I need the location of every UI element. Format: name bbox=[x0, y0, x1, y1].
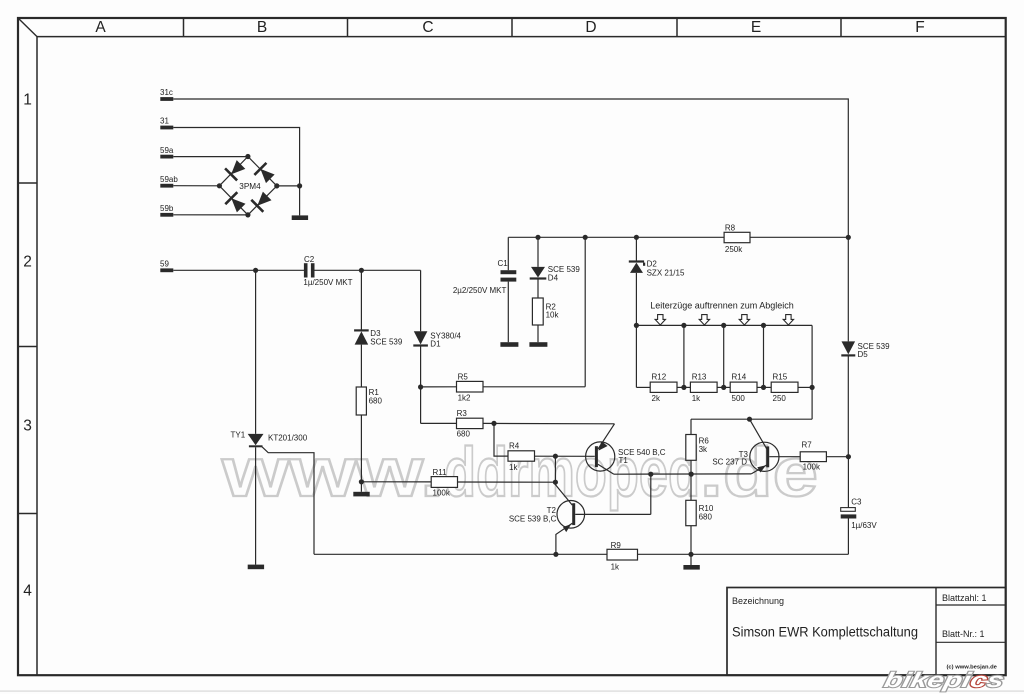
svg-text:E: E bbox=[751, 19, 761, 36]
svg-text:R5: R5 bbox=[458, 373, 469, 382]
svg-text:3PM4: 3PM4 bbox=[239, 182, 261, 191]
svg-text:R15: R15 bbox=[773, 373, 788, 382]
svg-text:Blattzahl: 1: Blattzahl: 1 bbox=[942, 593, 987, 603]
svg-text:4: 4 bbox=[23, 583, 32, 600]
svg-text:ddrmoped: ddrmoped bbox=[444, 433, 700, 511]
svg-text:B: B bbox=[257, 19, 267, 36]
svg-text:A: A bbox=[95, 19, 106, 36]
svg-text:C3: C3 bbox=[851, 497, 862, 506]
svg-text:3k: 3k bbox=[699, 445, 708, 454]
svg-text:R11: R11 bbox=[433, 468, 448, 477]
svg-text:R13: R13 bbox=[692, 373, 707, 382]
svg-text:bikepi: bikepi bbox=[882, 669, 974, 692]
svg-text:59a: 59a bbox=[160, 146, 174, 155]
svg-text:C1: C1 bbox=[498, 259, 509, 268]
svg-text:D1: D1 bbox=[430, 340, 441, 349]
svg-text:D2: D2 bbox=[647, 260, 658, 269]
svg-text:680: 680 bbox=[699, 512, 713, 521]
svg-text:500: 500 bbox=[732, 394, 746, 403]
svg-text:1k2: 1k2 bbox=[458, 393, 471, 402]
svg-text:1k: 1k bbox=[692, 394, 701, 403]
svg-text:D4: D4 bbox=[548, 273, 559, 282]
svg-text:SCE 539: SCE 539 bbox=[370, 338, 403, 347]
svg-text:10k: 10k bbox=[546, 310, 560, 319]
svg-text:1: 1 bbox=[23, 92, 32, 109]
svg-text:100k: 100k bbox=[433, 489, 451, 498]
svg-text:2µ2/250V MKT: 2µ2/250V MKT bbox=[453, 286, 507, 295]
svg-text:31: 31 bbox=[160, 117, 169, 126]
svg-text:Simson EWR Komplettschaltung: Simson EWR Komplettschaltung bbox=[732, 625, 918, 641]
svg-text:D5: D5 bbox=[858, 350, 869, 359]
svg-text:SC 237 D: SC 237 D bbox=[712, 457, 747, 466]
svg-text:www.: www. bbox=[221, 433, 444, 511]
svg-text:R9: R9 bbox=[611, 541, 622, 550]
svg-text:R4: R4 bbox=[509, 441, 520, 450]
svg-text:1k: 1k bbox=[611, 563, 620, 572]
svg-text:1µ/63V: 1µ/63V bbox=[851, 521, 877, 530]
svg-text:1µ/250V MKT: 1µ/250V MKT bbox=[303, 278, 352, 287]
svg-text:Bezeichnung: Bezeichnung bbox=[732, 596, 784, 606]
svg-text:KT201/300: KT201/300 bbox=[268, 434, 308, 443]
svg-text:680: 680 bbox=[457, 430, 471, 439]
svg-text:TY1: TY1 bbox=[231, 430, 246, 439]
svg-text:59b: 59b bbox=[160, 204, 174, 213]
svg-text:R14: R14 bbox=[732, 373, 747, 382]
svg-text:2: 2 bbox=[23, 254, 32, 271]
svg-text:250: 250 bbox=[773, 394, 787, 403]
svg-text:R12: R12 bbox=[652, 373, 667, 382]
svg-text:D: D bbox=[585, 19, 596, 36]
svg-text:R3: R3 bbox=[457, 409, 468, 418]
svg-text:2k: 2k bbox=[652, 394, 661, 403]
svg-text:R8: R8 bbox=[725, 223, 736, 232]
svg-text:T1: T1 bbox=[619, 456, 629, 465]
svg-text:1k: 1k bbox=[509, 463, 518, 472]
svg-text:31c: 31c bbox=[160, 88, 173, 97]
svg-text:Blatt-Nr.: 1: Blatt-Nr.: 1 bbox=[942, 629, 985, 639]
svg-text:SCE 539 B,C: SCE 539 B,C bbox=[509, 515, 557, 524]
svg-text:C: C bbox=[422, 19, 433, 36]
svg-text:F: F bbox=[915, 19, 924, 36]
svg-text:.de: .de bbox=[700, 433, 818, 511]
svg-text:59ab: 59ab bbox=[160, 175, 178, 184]
svg-text:C2: C2 bbox=[304, 255, 315, 264]
svg-text:3: 3 bbox=[23, 418, 32, 435]
svg-text:680: 680 bbox=[369, 396, 383, 405]
svg-text:R7: R7 bbox=[802, 440, 813, 449]
svg-text:SZX 21/15: SZX 21/15 bbox=[647, 269, 685, 278]
svg-text:59: 59 bbox=[160, 260, 169, 269]
svg-text:Leiterzüge auftrennen zum Abgl: Leiterzüge auftrennen zum Abgleich bbox=[650, 301, 794, 312]
svg-text:250k: 250k bbox=[725, 245, 743, 254]
svg-text:100k: 100k bbox=[803, 463, 821, 472]
